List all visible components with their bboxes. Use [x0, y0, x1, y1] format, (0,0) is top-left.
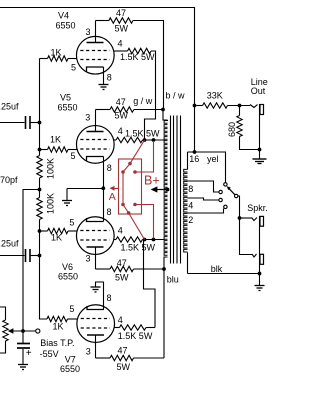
svg-text:.25uf: .25uf	[0, 238, 19, 248]
svg-text:47: 47	[116, 97, 126, 107]
svg-text:100K: 100K	[46, 158, 56, 179]
svg-text:6550: 6550	[56, 21, 76, 31]
svg-text:1K: 1K	[53, 322, 64, 332]
svg-text:5: 5	[69, 304, 74, 314]
svg-text:70pf: 70pf	[0, 175, 18, 185]
svg-text:B+: B+	[144, 174, 160, 188]
svg-text:V5: V5	[60, 92, 71, 102]
svg-text:4: 4	[118, 126, 123, 136]
svg-text:V7: V7	[65, 354, 76, 364]
svg-text:8: 8	[107, 207, 112, 217]
svg-text:3: 3	[85, 112, 90, 122]
svg-text:47: 47	[118, 345, 128, 355]
svg-text:b / w: b / w	[166, 91, 186, 101]
svg-text:1.5K 5W: 1.5K 5W	[120, 52, 155, 62]
svg-text:8: 8	[188, 184, 193, 194]
svg-text:V6: V6	[62, 262, 73, 272]
svg-text:1.5K 5W: 1.5K 5W	[125, 128, 160, 138]
svg-text:-55V: -55V	[40, 349, 59, 359]
svg-text:5: 5	[71, 151, 76, 161]
svg-text:6550: 6550	[60, 364, 80, 374]
svg-text:1.5K 5W: 1.5K 5W	[118, 331, 153, 341]
svg-text:1K: 1K	[51, 232, 62, 242]
svg-text:47: 47	[116, 8, 126, 18]
svg-text:5W: 5W	[117, 362, 131, 372]
svg-text:16: 16	[189, 154, 199, 164]
svg-text:4: 4	[118, 315, 123, 325]
svg-text:680: 680	[227, 122, 237, 137]
svg-text:5W: 5W	[115, 111, 129, 121]
svg-text:5: 5	[69, 218, 74, 228]
svg-text:8: 8	[107, 163, 112, 173]
svg-text:g / w: g / w	[133, 96, 153, 106]
svg-text:+: +	[26, 348, 32, 359]
svg-text:3: 3	[86, 253, 91, 263]
svg-text:33K: 33K	[207, 91, 223, 101]
svg-text:3: 3	[86, 27, 91, 37]
svg-text:yel: yel	[207, 154, 219, 164]
svg-text:4: 4	[188, 200, 193, 210]
svg-text:Bias T.P.: Bias T.P.	[40, 338, 74, 348]
svg-text:2: 2	[188, 215, 193, 225]
svg-text:blu: blu	[167, 274, 179, 284]
svg-text:A: A	[109, 191, 116, 203]
svg-text:.25uf: .25uf	[0, 102, 19, 112]
svg-text:8: 8	[107, 293, 112, 303]
svg-text:5W: 5W	[115, 24, 129, 34]
svg-text:Spkr.: Spkr.	[247, 203, 268, 213]
svg-text:4: 4	[118, 225, 123, 235]
svg-text:5W: 5W	[115, 272, 129, 282]
svg-text:blk: blk	[211, 264, 223, 274]
svg-text:Out: Out	[251, 86, 266, 96]
svg-text:V4: V4	[58, 11, 69, 21]
svg-text:4: 4	[118, 38, 123, 48]
svg-text:6550: 6550	[58, 272, 78, 282]
svg-text:47: 47	[117, 258, 127, 268]
svg-text:1K: 1K	[50, 134, 61, 144]
svg-text:6550: 6550	[58, 102, 78, 112]
svg-text:8: 8	[107, 73, 112, 83]
svg-text:5: 5	[71, 63, 76, 73]
svg-text:3: 3	[86, 347, 91, 357]
svg-text:1.5K 5W: 1.5K 5W	[121, 243, 156, 253]
svg-text:1K: 1K	[51, 48, 62, 58]
svg-text:100K: 100K	[46, 193, 56, 214]
